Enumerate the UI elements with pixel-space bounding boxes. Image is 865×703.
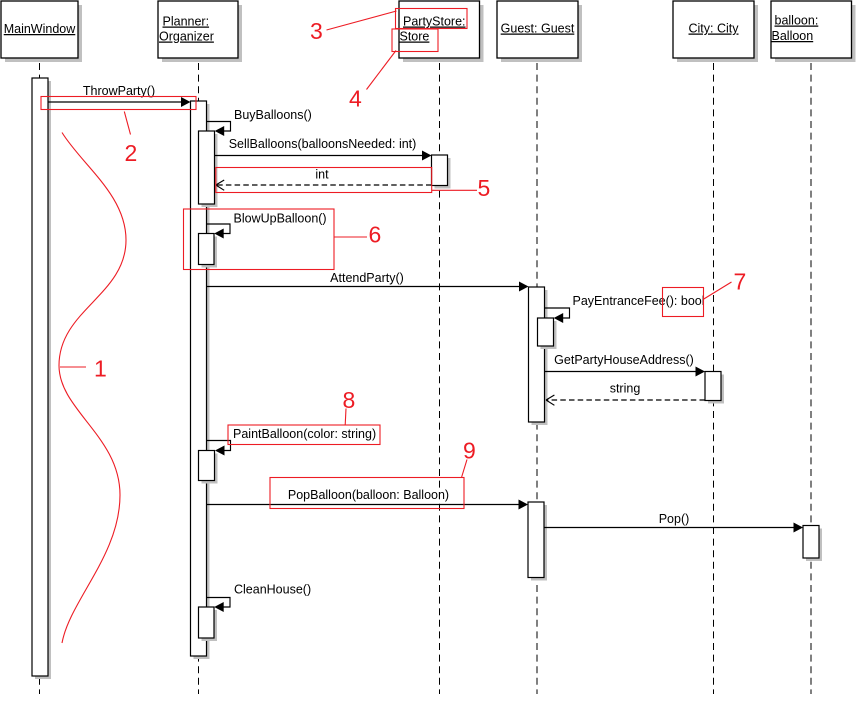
activation bar Planner nested PaintBalloon: [199, 451, 218, 484]
red annotation pointer 2: [124, 112, 130, 135]
activation bar balloon: [803, 526, 822, 562]
red annotation pointer 8: [344, 409, 347, 426]
lifeline MainWindow: [39, 63, 41, 694]
svg-text:Guest: Guest: Guest: Guest: [501, 22, 575, 36]
svg-text:Balloon: Balloon: [772, 29, 814, 43]
lifeline PartyStore: [439, 63, 441, 694]
svg-text:PartyStore:: PartyStore:: [403, 15, 466, 29]
svg-text:Organizer: Organizer: [159, 30, 214, 44]
svg-text:PopBalloon(balloon: Balloon): PopBalloon(balloon: Balloon): [288, 488, 449, 502]
activation bar Planner nested CleanHouse: [199, 607, 218, 641]
return string (dashed): [546, 382, 705, 406]
header box balloon: Balloon: [771, 1, 856, 62]
svg-text:6: 6: [369, 222, 382, 248]
header box City: City: [673, 1, 758, 62]
red annotation pointer 7: [704, 282, 732, 299]
svg-text:8: 8: [343, 387, 356, 413]
red annotation curve 1: [59, 133, 126, 644]
activation bar MainWindow: [32, 78, 51, 679]
red annotation pointer 9: [462, 460, 468, 478]
lifeline City: [713, 63, 715, 694]
svg-text:int: int: [315, 168, 329, 182]
lifeline Planner: [198, 63, 200, 694]
svg-text:9: 9: [463, 438, 476, 464]
activation bar Guest 1: [529, 287, 548, 425]
header box Guest: Guest: [497, 1, 582, 62]
svg-text:1: 1: [94, 356, 107, 382]
svg-text:AttendParty(): AttendParty(): [330, 271, 404, 285]
message ThrowParty: [48, 84, 191, 107]
red annotation box 4 (Store): [392, 29, 438, 52]
svg-text:GetPartyHouseAddress(): GetPartyHouseAddress(): [554, 353, 694, 367]
svg-text:Pop(): Pop(): [659, 512, 690, 526]
svg-text:CleanHouse(): CleanHouse(): [234, 583, 311, 597]
red annotation box 8 (PaintBalloon): [228, 425, 380, 445]
message CleanHouse (self): [207, 583, 311, 613]
red annotation box 5 (int return): [216, 168, 432, 193]
svg-text:SellBalloons(balloonsNeeded: i: SellBalloons(balloonsNeeded: int): [229, 137, 417, 151]
activation bar Planner (outer): [191, 101, 210, 659]
message AttendParty: [207, 271, 529, 292]
header box PartyStore: Store: [399, 1, 484, 62]
red annotation pointer 3: [327, 11, 397, 30]
return int (dashed): [216, 168, 432, 191]
message BuyBalloons (self): [207, 108, 312, 136]
svg-text:4: 4: [349, 86, 362, 112]
message GetPartyHouseAddress: [545, 353, 705, 377]
svg-text:3: 3: [310, 18, 323, 44]
svg-text:PaintBalloon(color: string): PaintBalloon(color: string): [233, 427, 376, 441]
message BlowUpBalloon (self): [207, 212, 327, 239]
activation bar Guest 2: [528, 502, 547, 581]
message SellBalloons: [215, 137, 432, 161]
svg-text:7: 7: [734, 269, 747, 295]
red annotation tick 1: [60, 366, 86, 368]
header box MainWindow: [1, 1, 82, 62]
svg-text:City: City: City: City: [689, 22, 740, 36]
svg-text:balloon:: balloon:: [775, 14, 819, 28]
red annotation pointer 4: [367, 51, 397, 90]
lifeline balloon: [810, 63, 812, 694]
svg-text:ThrowParty(): ThrowParty(): [83, 84, 155, 98]
lifeline Guest: [536, 63, 538, 694]
svg-text:5: 5: [478, 175, 491, 201]
red annotation box 9 (PopBalloon): [270, 478, 464, 509]
red annotation box 7 ((): bool): [663, 288, 704, 317]
activation bar Planner nested BuyBalloons: [199, 131, 218, 207]
activation bar Guest nested PayEntranceFee: [538, 318, 557, 349]
activation bar City: [705, 372, 724, 404]
svg-text:BuyBalloons(): BuyBalloons(): [234, 108, 312, 122]
message PaintBalloon (self): [207, 427, 376, 456]
message PopBalloon: [207, 488, 528, 510]
red annotation pointer 6: [334, 236, 367, 238]
svg-text:string: string: [610, 382, 641, 396]
svg-text:MainWindow: MainWindow: [4, 22, 77, 36]
activation bar Planner nested BlowUpBalloon: [199, 234, 218, 268]
red annotation box 2 (ThrowParty): [41, 97, 196, 110]
message PayEntranceFee (self): [545, 294, 705, 323]
svg-text:2: 2: [125, 140, 138, 166]
svg-text:Planner:: Planner:: [163, 15, 210, 29]
svg-text:Store: Store: [400, 30, 430, 44]
svg-text:PayEntranceFee(): bool: PayEntranceFee(): bool: [573, 294, 705, 308]
message Pop: [544, 512, 803, 533]
svg-text:BlowUpBalloon(): BlowUpBalloon(): [234, 212, 327, 226]
activation bar PartyStore: [432, 155, 451, 189]
red annotation box 3 (PartyStore:): [396, 9, 468, 29]
header box Planner: Organizer: [158, 1, 242, 62]
red annotation box 6 (BlowUpBalloon): [184, 209, 335, 270]
red annotation pointer 5: [432, 189, 477, 191]
